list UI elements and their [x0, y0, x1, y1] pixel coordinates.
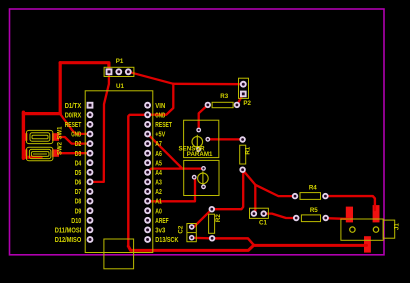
wire GND to switches: [23, 112, 60, 115]
switch SW1: [26, 130, 53, 143]
svg-text:A1: A1: [155, 197, 162, 206]
svg-text:SW1: SW1: [58, 126, 64, 140]
U1 right pad A0: [144, 207, 151, 214]
wire +5V to sensor2: [148, 134, 204, 169]
wire branch to GND pin right: [148, 84, 174, 115]
svg-text:GND: GND: [155, 110, 165, 119]
svg-text:RESET: RESET: [155, 120, 172, 129]
wire P1 pin1 to D6: [90, 72, 109, 182]
SW2 smd pad right: [52, 149, 59, 156]
U1 right pad A6: [144, 150, 151, 157]
R5 pad right: [323, 215, 329, 221]
capacitor C1 outline: [250, 208, 269, 218]
sensor element2 symbol: [198, 171, 209, 185]
J1 smd pad 2: [373, 205, 380, 222]
wire C2 bottom to R2 bottom: [192, 237, 212, 240]
svg-text:A3: A3: [155, 178, 162, 187]
wire C1 to R5 left: [264, 214, 297, 218]
wire R4 to J1 pad2: [325, 196, 375, 210]
svg-text:U1: U1: [116, 83, 124, 90]
wire branch to R4 left: [255, 185, 295, 196]
op-amp U1 outline: [85, 91, 153, 253]
wire SW1 to D2: [57, 137, 90, 144]
J1 smd pad 3: [364, 236, 371, 252]
svg-text:AREF: AREF: [155, 216, 169, 225]
SW2 smd pad left: [23, 149, 28, 156]
wire sensor to R1 top: [208, 138, 243, 140]
svg-text:D4: D4: [75, 158, 82, 167]
svg-text:GND: GND: [71, 130, 81, 139]
U1 right pad D13/SCK: [144, 236, 151, 243]
switch SW2: [26, 147, 53, 161]
svg-text:RESET: RESET: [65, 120, 82, 129]
U1 right pad RESET: [144, 121, 151, 128]
C1 pad 1: [251, 210, 257, 216]
P2 pin 1: [240, 81, 247, 88]
svg-text:D9: D9: [75, 206, 82, 215]
svg-text:D2: D2: [75, 139, 82, 148]
wire A1 to sensor2 left: [148, 177, 195, 201]
wire R2 bottom to GND bottom: [212, 238, 255, 245]
connector J1 body: [341, 219, 383, 240]
U1 left pad D11/MOSI: [87, 227, 94, 234]
svg-text:A5: A5: [155, 158, 162, 167]
svg-text:D6: D6: [75, 178, 82, 187]
wire switch left pads vertical: [22, 112, 25, 158]
resistor R2 body: [209, 214, 215, 233]
svg-text:+5V: +5V: [155, 130, 165, 139]
svg-text:R2: R2: [215, 214, 222, 222]
U1 left pad D7: [87, 188, 94, 195]
P1 pin 1: [106, 68, 113, 75]
C2 pad 2: [189, 235, 195, 241]
svg-text:D5: D5: [75, 168, 82, 177]
R1 pad bottom: [239, 167, 245, 173]
wire to GND pin left: [60, 114, 90, 134]
C2 divider: [187, 232, 196, 234]
U1 right pad GND: [144, 111, 151, 118]
R2 pad bottom: [209, 235, 215, 241]
resistor R3 body: [212, 102, 233, 107]
svg-text:D11/MOSI: D11/MOSI: [55, 226, 82, 235]
svg-text:R3: R3: [220, 93, 228, 100]
wire SW2 left pad stub: [23, 156, 41, 159]
R3 pad right: [234, 102, 240, 108]
SW1 smd pad right: [52, 133, 59, 141]
U1 right pad A3: [144, 179, 151, 186]
wire GND through U1: [128, 115, 147, 246]
U1 left pad D4: [87, 159, 94, 166]
wire A4 join: [148, 169, 183, 173]
svg-text:C2: C2: [178, 225, 185, 233]
svg-text:R1: R1: [244, 146, 251, 154]
svg-text:P2: P2: [243, 100, 251, 107]
wire R2 top to C2 top: [192, 209, 212, 227]
wire SW2 to D3: [57, 152, 90, 154]
header P2 outline: [239, 78, 249, 98]
sensor element2 outline: [184, 160, 219, 195]
U1 left pad RESET: [87, 121, 94, 128]
R3 pad left: [205, 102, 211, 108]
capacitor C2 outline: [187, 224, 196, 242]
svg-text:A2: A2: [155, 187, 162, 196]
U1 left pad D1/TX: [87, 102, 94, 109]
C1 pad 2: [261, 210, 267, 216]
U1 right pad A1: [144, 198, 151, 205]
J1 holes: [350, 227, 379, 232]
sensor1 pad right: [205, 137, 210, 142]
U1 left pad D10: [87, 217, 94, 224]
U1 left pad D6: [87, 179, 94, 186]
connector J1 tab: [383, 220, 395, 238]
svg-text:R5: R5: [310, 207, 318, 214]
svg-text:D7: D7: [75, 187, 82, 196]
svg-text:A0: A0: [155, 206, 162, 215]
svg-text:R4: R4: [309, 185, 317, 192]
wire P1 pin3 to P2 pin1: [128, 72, 243, 84]
svg-text:D10: D10: [71, 216, 81, 225]
SW1 smd pad left: [23, 133, 28, 141]
U1 right pad A5: [144, 159, 151, 166]
wire R1 bottom to R2 top: [212, 170, 243, 210]
wire R3 to sensor pin1: [199, 105, 208, 130]
U1 left pad D12/MISO: [87, 236, 94, 243]
svg-text:3v3: 3v3: [155, 226, 165, 235]
sensor1 pad top: [196, 128, 201, 133]
R1 pad top: [239, 136, 245, 142]
svg-text:D12/MISO: D12/MISO: [55, 235, 82, 244]
R5 pad left: [293, 215, 299, 221]
wire P2 pin2 to R3: [237, 94, 243, 105]
svg-text:D8: D8: [75, 197, 82, 206]
header P1 outline: [104, 67, 134, 76]
U1 right pad A4: [144, 169, 151, 176]
svg-text:A7: A7: [155, 139, 162, 148]
svg-text:SW2: SW2: [58, 141, 64, 155]
sensor U2 element1 outline: [184, 120, 219, 157]
svg-text:P1: P1: [116, 58, 124, 65]
sensor element1 symbol: [192, 135, 203, 149]
resistor R5 body: [301, 215, 320, 222]
svg-text:C1: C1: [259, 220, 267, 227]
board outline: [10, 9, 385, 255]
C2 pad 1: [189, 224, 195, 230]
P1 pin 3: [125, 68, 132, 75]
P1 pin 2: [115, 68, 122, 75]
U1 left pad D0/RX: [87, 111, 94, 118]
U1 right pad VIN: [144, 102, 151, 109]
svg-text:D0/RX: D0/RX: [65, 110, 82, 119]
U1 right pad AREF: [144, 217, 151, 224]
U1 left pad GND: [87, 131, 94, 138]
resistor R1 body: [240, 145, 246, 164]
svg-text:A6: A6: [155, 149, 162, 158]
J1 smd pad 1: [346, 207, 353, 223]
sensor1 pad bottom: [196, 147, 201, 152]
R4 pad right: [322, 193, 328, 199]
svg-text:D1/TX: D1/TX: [65, 101, 82, 110]
svg-text:D3: D3: [75, 149, 82, 158]
R4 pad left: [292, 193, 298, 199]
P2 pin 2: [240, 91, 247, 98]
U1 left pad D2: [87, 140, 94, 147]
sensor2 pad top: [201, 166, 206, 171]
U1 left pad D5: [87, 169, 94, 176]
svg-text:VIN: VIN: [155, 101, 165, 110]
U1 right pad +5V: [144, 131, 151, 138]
svg-text:A4: A4: [155, 168, 162, 177]
U1 left pad D9: [87, 207, 94, 214]
U1 right pad A7: [144, 140, 151, 147]
U1 left pad D3: [87, 150, 94, 157]
U1 inner connector square: [104, 239, 134, 269]
U1 left pad D8: [87, 198, 94, 205]
U1 right pad A2: [144, 188, 151, 195]
sensor2 pad bottom: [201, 184, 206, 189]
wire GND bottom to J1 pad3: [128, 245, 366, 250]
svg-text:J1: J1: [393, 223, 400, 230]
wire R5 to J1 pad1: [326, 217, 350, 220]
sensor2 pad left: [192, 175, 197, 180]
R2 pad top: [209, 206, 215, 212]
wire GND top to P1 pin1: [60, 63, 109, 72]
resistor R4 body: [300, 193, 321, 200]
svg-text:D13/SCK: D13/SCK: [155, 235, 179, 244]
wire R1 bottom to C1 left: [243, 170, 256, 214]
U1 right pad 3v3: [144, 227, 151, 234]
svg-text:PARAM1: PARAM1: [187, 151, 213, 158]
wire GND left vertical: [59, 63, 62, 114]
